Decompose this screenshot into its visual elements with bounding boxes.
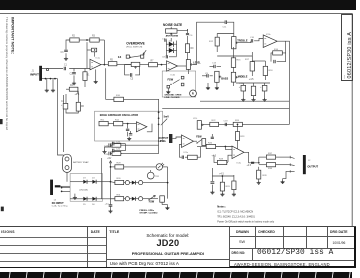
resistor R15 [231, 58, 235, 68]
svg-text:VOL: VOL [193, 118, 198, 120]
ground - R19 [253, 96, 255, 98]
capacitor C29 round [125, 197, 129, 201]
svg-text:LINE: CLOSED: LINE: CLOSED [164, 97, 180, 99]
svg-text:e-a: e-a [345, 74, 347, 78]
date column [88, 227, 106, 266]
svg-text:R30: R30 [117, 178, 122, 180]
wire - dc tip contact [55, 185, 61, 187]
wire - right power rail [167, 167, 169, 199]
svg-text:Power On/Off jack switch works: Power On/Off jack switch works in batter… [217, 220, 275, 223]
wire - IC2a feedback loop [179, 145, 181, 158]
resistor R30 [115, 180, 124, 184]
resistor R35 to ground [232, 181, 236, 190]
capacitor C11 treble in [225, 20, 227, 24]
resistor R26 series [206, 144, 215, 148]
svg-text:This drawing contains propriet: This drawing contains proprietary inform… [5, 17, 9, 130]
capacitor C17 feedback [182, 156, 183, 159]
svg-text:(1N4148): (1N4148) [79, 190, 88, 192]
op-amp IC2b [263, 35, 277, 48]
svg-text:06012/SP30 iss A: 06012/SP30 iss A [347, 31, 353, 78]
resistor R31 row2 [115, 197, 124, 201]
wire - level pot joins [187, 53, 189, 60]
connector J2 output jack [303, 155, 306, 174]
svg-text:IMPORTANT NOTE:: IMPORTANT NOTE: [10, 17, 15, 54]
svg-text:R29: R29 [117, 163, 122, 165]
wire - treble wiper to C10 [238, 41, 251, 43]
capacitor C4 lower [63, 103, 68, 109]
wire - left power rail [101, 158, 103, 199]
connector pin 14 square [141, 55, 144, 58]
svg-text:R18: R18 [269, 70, 274, 72]
capacitor C31 rail decouple [110, 199, 112, 205]
capacitor C13 bass in [214, 65, 215, 68]
ground - tone common [207, 83, 209, 86]
svg-text:EDGE GROWLER OSCILLATOR: EDGE GROWLER OSCILLATOR [100, 113, 138, 117]
svg-text:IC1b: IC1b [171, 74, 176, 76]
op-amp IC3a [232, 146, 244, 159]
ground - rectifier mid [74, 194, 76, 196]
svg-text:DC INPUT: DC INPUT [52, 202, 64, 205]
connector - jack contact ring [290, 164, 294, 167]
capacitor C14 feedback [274, 60, 275, 63]
connector - jack contact tip [290, 157, 294, 158]
potentiometer VR7 output level [169, 134, 172, 143]
wire - volume chain top [203, 123, 289, 125]
ground - output sleeve [282, 179, 284, 181]
capacitor C5 under drive pot [130, 73, 131, 77]
svg-text:R: R [192, 92, 194, 96]
svg-text:BATTERY SNAP: BATTERY SNAP [73, 161, 89, 164]
op-amp IC2a [182, 135, 194, 148]
capacitor C18 small [211, 134, 213, 137]
scan artifact - left edge speck upper [0, 119, 3, 124]
diode D8 [132, 197, 136, 201]
resistor R39 shunt [257, 170, 261, 179]
svg-text:R3: R3 [92, 36, 96, 38]
resistor R2 feedback [70, 38, 79, 42]
svg-text:R38: R38 [268, 168, 273, 170]
svg-text:R24: R24 [235, 120, 240, 122]
ground - fsw common [167, 88, 169, 90]
capacitor C9 [207, 74, 208, 77]
resistor R18 [263, 66, 267, 75]
capacitor C7 [165, 39, 166, 42]
wire - IC3a out [244, 152, 259, 163]
svg-text:D2: D2 [169, 47, 173, 49]
diode D1 [166, 43, 168, 45]
svg-text:PRESS: OPEn: PRESS: OPEn [139, 210, 154, 212]
switch - pull actuator arrow 14 [143, 50, 146, 54]
potentiometer VR4 treble [232, 37, 236, 49]
switch - 5mV select arrow [161, 119, 167, 126]
resistor R12 [215, 37, 219, 46]
svg-text:C6: C6 [190, 35, 194, 37]
svg-text:R39: R39 [263, 175, 268, 177]
resistor R12 osc [114, 121, 123, 125]
svg-text:D4: D4 [92, 178, 95, 180]
label +9V arrow [110, 161, 112, 182]
diode D2 [166, 49, 168, 51]
capacitor C30 round [139, 197, 143, 201]
svg-text:TREBLE: TREBLE [237, 39, 248, 43]
wire - R10 feed from stage1 [106, 68, 114, 99]
svg-text:INPUT: INPUT [30, 73, 39, 77]
battery BT1 snap [63, 154, 72, 172]
diode D5 [83, 197, 87, 201]
svg-text:D3: D3 [83, 178, 86, 180]
wire - osc to lower chain [158, 124, 160, 145]
capacitor C25 supply [112, 142, 114, 146]
oscillator box - EDGE GROWLER OSCILLATOR [95, 111, 163, 141]
resistor R16 feedback [273, 51, 283, 55]
capacitor C21 osc [127, 124, 129, 129]
right margin drawing number box [341, 14, 352, 81]
switch - overdrive pull switch blade [130, 56, 141, 58]
resistor R17 [250, 62, 254, 71]
diode D6 [92, 197, 96, 201]
svg-text:C5: C5 [130, 78, 134, 80]
wire - dc jack into box [62, 187, 70, 189]
svg-text:+4.5: +4.5 [75, 93, 80, 96]
op-amp IC1a [90, 59, 101, 70]
resistor R20 feedback [188, 155, 198, 159]
wire - tone input from level pot [193, 22, 225, 64]
wire - sleeve to ground [283, 171, 291, 178]
wire - gate column [170, 38, 172, 42]
ground - R39 [257, 181, 261, 184]
potentiometer VR8 volume [197, 121, 201, 130]
op-amp IC1b [167, 61, 178, 72]
wire - power row1 chain [110, 181, 112, 183]
resistor R10 [114, 97, 124, 101]
wire - R2 R3 junction drop [86, 42, 88, 68]
wire - IC1a feedback up [103, 40, 105, 65]
svg-text:TR1: BC548. Z1,2,3,4,5,6: 1N4: TR1: BC548. Z1,2,3,4,5,6: 1N4001 [217, 216, 255, 219]
transistor Q2 switch [147, 172, 154, 179]
wire - frame top border line [0, 13, 353, 15]
diode D7 [132, 181, 136, 185]
potentiometer VR6 middle [231, 72, 235, 82]
svg-text:IC1a: IC1a [96, 57, 101, 59]
ground - input sleeve [52, 79, 54, 89]
svg-text:FSW: FSW [196, 135, 202, 138]
capacitor C6 gate detector [186, 33, 189, 34]
svg-text:R23: R23 [240, 136, 245, 138]
svg-text:IC2b: IC2b [266, 34, 271, 36]
wire - IC1a output node [101, 64, 108, 66]
svg-text:R31: R31 [117, 194, 122, 196]
svg-text:5mV: 5mV [164, 116, 170, 119]
op-amp IC4 oscillator [136, 122, 147, 132]
scanner top black bar [0, 0, 356, 10]
svg-text:+4.5: +4.5 [249, 78, 254, 81]
switch box - footswitch mode enclosure [162, 71, 196, 97]
wire - feedback top rail [99, 39, 104, 41]
svg-text:C1: C1 [64, 65, 68, 67]
connector J1 input jack [39, 66, 42, 81]
transistor Q1 mute (circled R) [190, 90, 197, 97]
svg-text:MIDDLE: MIDDLE [238, 75, 248, 78]
svg-text:C10: C10 [250, 37, 255, 39]
resistor R22 [210, 122, 219, 126]
resistor R7 series to IC1b [149, 63, 158, 67]
svg-text:C24: C24 [104, 154, 109, 156]
svg-text:C3: C3 [61, 52, 65, 54]
svg-text:R15: R15 [237, 60, 242, 62]
svg-text:IC2a: IC2a [184, 152, 189, 154]
right block [230, 227, 356, 266]
svg-text:D5: D5 [83, 204, 86, 206]
connector FSW jack [160, 196, 165, 202]
svg-text:R10: R10 [116, 95, 121, 97]
svg-text:OVERDRIVE: OVERDRIVE [126, 42, 145, 46]
wire - frame right border line [351, 14, 353, 227]
ground - R33 [220, 193, 224, 196]
ground - C3 [64, 57, 68, 60]
potentiometer VR2 anti-noise [166, 29, 178, 33]
ground - under input jack [46, 79, 48, 89]
svg-text:IC1: TL072CP IC2,3: MC1458CN: IC1: TL072CP IC2,3: MC1458CN [217, 211, 253, 214]
wire - bias network joins [65, 94, 67, 103]
LED1 power indicator [156, 164, 162, 170]
svg-text:IC3a: IC3a [237, 163, 242, 165]
switch - fsw jack arrow [148, 195, 155, 200]
svg-text:D1: D1 [169, 41, 173, 43]
wire - IC3a inputs tie [225, 147, 232, 150]
capacitor C10 [251, 39, 252, 42]
capacitor C28 round [139, 181, 143, 185]
svg-text:LEVEL: LEVEL [158, 140, 166, 143]
svg-text:+9V: +9V [107, 158, 112, 160]
svg-text:R22: R22 [212, 120, 217, 122]
svg-text:C8: C8 [162, 56, 166, 58]
contact square c [181, 76, 184, 79]
svg-text:LEVEL: LEVEL [193, 62, 201, 64]
svg-text:C4: C4 [61, 101, 65, 103]
wire - sleeve rail down to battery section [57, 79, 59, 152]
wire - 4.5V rail [236, 82, 270, 84]
wire - IC2b output to right rail [277, 41, 289, 124]
connector - jack contact sleeve [290, 170, 294, 172]
resistor R38 to ring [266, 163, 275, 167]
wire - bias row [212, 175, 234, 177]
svg-text:R2: R2 [72, 36, 76, 38]
svg-text:C19: C19 [224, 120, 229, 122]
wire - tone stack ties [251, 56, 253, 62]
scan artifact - left edge speck lower [1, 207, 4, 212]
svg-text:R7: R7 [151, 60, 155, 62]
svg-text:R17: R17 [245, 59, 250, 61]
svg-text:R9: R9 [191, 48, 195, 50]
wire - osc feedback [147, 124, 152, 132]
svg-text:R12: R12 [209, 41, 214, 43]
svg-text:+4.5: +4.5 [247, 165, 252, 167]
resistor R28 feedback [217, 160, 226, 164]
left margin rotated IMPORTANT NOTE text [4, 16, 12, 156]
svg-text:R5: R5 [110, 59, 114, 61]
contact square b [181, 83, 184, 86]
svg-text:R1: R1 [87, 75, 91, 77]
resistor R11 [99, 121, 108, 125]
capacitor C1 input coupling [64, 67, 65, 71]
wire - gate side rails [165, 40, 167, 56]
svg-text:FSW: FSW [149, 201, 155, 204]
svg-text:C13: C13 [212, 63, 217, 65]
capacitor C24 osc out lower [109, 152, 111, 156]
capacitor C15 rail filter [241, 85, 246, 91]
resistor R19 [251, 86, 255, 95]
svg-text:BASS: BASS [221, 78, 228, 81]
wire - vr7 to IC2a [172, 137, 181, 138]
node - 5mV tap column [158, 112, 160, 114]
contact square a [167, 85, 170, 88]
resistor R21 [202, 139, 206, 146]
capacitor C19 [225, 123, 226, 126]
scanner bottom black bar with sprocket slashes [0, 272, 352, 278]
svg-text:R4: R4 [70, 85, 74, 87]
resistor R37 to tip [266, 155, 275, 159]
capacitor C2 to ground [73, 69, 75, 72]
capacitor C23 osc out upper [109, 143, 111, 147]
ground - C31 [110, 206, 112, 209]
wire - gate top rail [177, 29, 188, 30]
svg-text:STOMP: CLOSEd: STOMP: CLOSEd [139, 213, 158, 215]
svg-text:0.2A+ Tip or Ring: 0.2A+ Tip or Ring [52, 205, 68, 208]
svg-text:R6: R6 [81, 106, 85, 108]
svg-text:FSW: FSW [168, 79, 174, 82]
title cell [107, 227, 230, 266]
switch - fsw2 arrow [197, 139, 203, 143]
svg-text:J2: J2 [308, 160, 311, 162]
svg-text:+4.5: +4.5 [219, 173, 224, 175]
ground - C16 [264, 91, 266, 98]
resistor R24 [233, 122, 242, 126]
capacitor C22 osc [129, 134, 132, 135]
svg-text:(PULL SWITCH): (PULL SWITCH) [126, 47, 142, 49]
wire - IC2a out [194, 140, 198, 142]
resistor R33 to ground [220, 182, 224, 191]
svg-text:13: 13 [118, 55, 122, 59]
svg-text:D6: D6 [92, 204, 95, 206]
capacitor C27 round [125, 181, 129, 185]
wire - IC1b output [178, 65, 187, 67]
title block [0, 226, 356, 267]
resistor R6 [76, 102, 80, 111]
capacitor C3 in feedback shunt [64, 50, 68, 51]
wire - power rail down [63, 95, 65, 152]
resistor R6 lower divider [77, 87, 79, 94]
resistor R23 from volume chain [237, 124, 239, 126]
wire - lower tone rail [200, 100, 289, 102]
ground - R35 [232, 193, 236, 196]
ground - supply caps [105, 147, 113, 150]
svg-text:NOISE GATE: NOISE GATE [163, 23, 182, 27]
ground - osc caps [127, 132, 129, 137]
svg-text:+: + [260, 86, 262, 89]
svg-text:Notes :: Notes : [217, 204, 226, 208]
wire - osc chain [108, 123, 113, 125]
resistor R3 feedback [90, 38, 99, 42]
resistor R9 [185, 44, 189, 53]
switch - fsw arrow [173, 80, 180, 84]
svg-text:ANTI NOISE: ANTI NOISE [166, 34, 179, 37]
capacitor C8 [166, 55, 167, 58]
wire - r12 top tie [217, 33, 234, 35]
potentiometer VR5 bass [215, 71, 219, 82]
wire - jack switch contacts [42, 78, 58, 80]
wire - mid column [233, 47, 235, 58]
ground - bass pot [216, 82, 218, 86]
ground - C20 [210, 191, 214, 194]
wire - jack tip contact to C1 [42, 68, 63, 70]
revisions column [0, 227, 88, 266]
ground - under IC1a [95, 69, 97, 80]
diode D3 [83, 180, 87, 184]
resistor R1 bias [84, 69, 86, 72]
diode D4 [92, 180, 96, 184]
svg-text:+: + [61, 104, 63, 107]
wire - mode row [162, 108, 289, 110]
ground - fsw jack [162, 205, 167, 207]
svg-text:R33: R33 [226, 186, 231, 188]
svg-text:+: + [239, 86, 241, 89]
resistor R4 bias to noninverting [92, 48, 97, 52]
potentiometer VR3 level [186, 60, 190, 70]
svg-text:TR1: TR1 [155, 176, 160, 178]
svg-text:OUTPUT: OUTPUT [307, 164, 318, 168]
connector J3 DC input jack [50, 180, 53, 195]
resistor R5 series [108, 62, 117, 66]
potentiometer VR1 drive [131, 62, 140, 66]
wire - battery to rails [58, 152, 64, 155]
capacitor C26 supply [112, 149, 114, 153]
capacitor C20 to ground [211, 168, 213, 181]
svg-text:C11: C11 [223, 27, 228, 29]
ground - C15 [242, 91, 244, 98]
rectifier box [70, 174, 102, 202]
resistor R29 led feed [115, 165, 124, 169]
capacitor C16 rail filter [262, 85, 267, 91]
wire - pot left loop to C5 [125, 64, 132, 75]
